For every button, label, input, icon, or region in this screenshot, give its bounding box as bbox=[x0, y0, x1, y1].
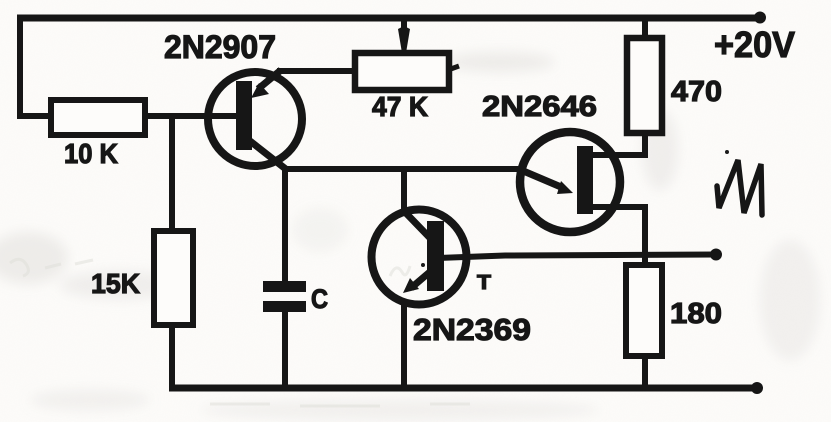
svg-text:15K: 15K bbox=[91, 268, 140, 299]
svg-text:470: 470 bbox=[671, 76, 722, 108]
svg-text:2N2907: 2N2907 bbox=[164, 29, 276, 65]
svg-text:180: 180 bbox=[670, 298, 722, 330]
svg-text:C: C bbox=[311, 284, 328, 314]
svg-text:2N2646: 2N2646 bbox=[482, 91, 597, 123]
svg-text:10 K: 10 K bbox=[64, 138, 118, 169]
svg-text:47 K: 47 K bbox=[372, 91, 428, 122]
svg-text:+20V: +20V bbox=[714, 24, 795, 65]
svg-text:2N2369: 2N2369 bbox=[413, 312, 531, 347]
svg-text:T: T bbox=[477, 272, 491, 294]
